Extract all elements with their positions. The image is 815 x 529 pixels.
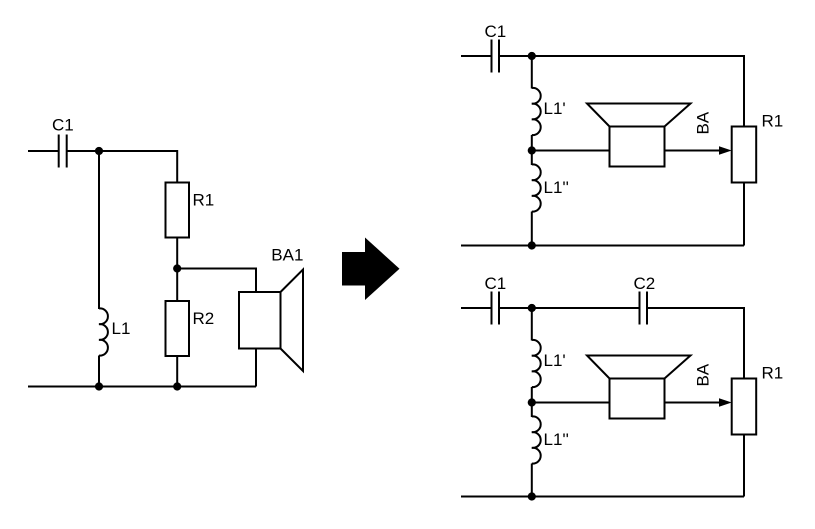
wire junction to speaker BA1 top	[177, 269, 256, 293]
wiper arrowhead (bottom-right)	[719, 398, 732, 407]
wire junction down to L1	[98, 151, 100, 309]
transform arrow	[342, 238, 400, 301]
wire junction to L1' (top-right)	[531, 56, 533, 89]
capacitor C1 (left circuit)	[59, 135, 67, 168]
wire junction to L1' (bottom-right)	[531, 308, 533, 341]
wiper arrowhead (top-right)	[719, 146, 732, 155]
node top junction (bottom-right)	[528, 304, 536, 312]
wire mid junction to speaker (top-right)	[532, 150, 610, 152]
svg-text:R1: R1	[762, 112, 784, 131]
wire mid junction to L1'' (top-right)	[531, 151, 533, 166]
inductor L1' (top-right)	[532, 88, 541, 135]
inductor L1'' (bottom-right)	[532, 416, 541, 463]
speaker BA (top-right)	[587, 104, 691, 167]
wire junction to R2	[176, 269, 178, 302]
wire mid junction to speaker (bottom-right)	[532, 402, 610, 404]
speaker BA1	[239, 270, 303, 372]
svg-text:L1'': L1''	[544, 430, 569, 449]
svg-text:C1: C1	[52, 116, 74, 135]
node A (junction dot top of L1)	[95, 147, 103, 155]
svg-text:BA: BA	[694, 111, 713, 134]
wire C1 to R1 corner (top wire)	[67, 151, 178, 183]
svg-text:L1: L1	[112, 319, 131, 338]
wire C2 to R1 corner (bottom-right)	[647, 308, 744, 379]
svg-text:L1': L1'	[544, 99, 566, 118]
node C (junction dot between R1 and R2)	[173, 264, 181, 272]
node mid junction (top-right)	[528, 146, 536, 154]
svg-text:R1: R1	[762, 364, 784, 383]
svg-text:C1: C1	[485, 274, 507, 293]
wire L1'' to bottom rail (top-right)	[531, 212, 533, 246]
potentiometer R1 (bottom-right)	[732, 379, 757, 435]
wire L1' to mid junction (bottom-right)	[531, 387, 533, 403]
wire R1 to junction	[176, 238, 178, 269]
inductor L1' (bottom-right)	[532, 340, 541, 387]
wire mid junction to L1'' (bottom-right)	[531, 403, 533, 418]
svg-text:BA1: BA1	[271, 246, 303, 265]
node top junction (top-right)	[528, 52, 536, 60]
inductor L1'' (top-right)	[532, 164, 541, 211]
capacitor C1 (top-right circuit)	[492, 40, 500, 73]
node B (junction dot L1 bottom)	[95, 382, 103, 390]
wire left input (left circuit top lead)	[28, 150, 58, 152]
wire C1 to C2	[499, 307, 640, 309]
node bottom junction (bottom-right)	[528, 492, 536, 500]
capacitor C2	[640, 292, 648, 325]
svg-text:R2: R2	[193, 309, 215, 328]
capacitor C1 (bottom-right circuit)	[492, 292, 500, 325]
speaker BA (bottom-right)	[587, 356, 691, 419]
node bottom junction (top-right)	[528, 241, 536, 249]
svg-text:C2: C2	[634, 274, 656, 293]
wire L1' to mid junction (top-right)	[531, 135, 533, 151]
wire bottom rail (top-right)	[461, 245, 744, 247]
wire left input (bottom-right circuit top lead)	[461, 307, 491, 309]
wire speaker BA1 bottom to bottom rail	[255, 349, 257, 387]
resistor R2	[166, 301, 190, 356]
potentiometer R1 (top-right)	[732, 127, 757, 183]
wire R1 bottom to rail (top-right)	[743, 183, 745, 246]
wire speaker to R1 wiper (bottom-right)	[665, 402, 722, 404]
wire R1 bottom to rail (bottom-right)	[743, 435, 745, 497]
wire left input (top-right circuit top lead)	[461, 55, 491, 57]
node D (junction dot R2 bottom)	[173, 382, 181, 390]
svg-text:BA: BA	[694, 363, 713, 386]
svg-text:L1': L1'	[544, 351, 566, 370]
node mid junction (bottom-right)	[528, 398, 536, 406]
inductor L1	[99, 308, 108, 355]
wire bottom rail (left circuit)	[28, 386, 256, 388]
resistor R1 (left circuit)	[166, 183, 190, 238]
wire L1'' to bottom rail (bottom-right)	[531, 464, 533, 497]
svg-text:R1: R1	[193, 191, 215, 210]
wire L1 to bottom rail	[98, 356, 100, 387]
wire speaker to R1 wiper (top-right)	[665, 150, 722, 152]
svg-text:C1: C1	[485, 22, 507, 41]
wire C1 to R1 corner (top-right)	[499, 56, 744, 127]
wire bottom rail (bottom-right)	[461, 496, 744, 498]
svg-text:L1'': L1''	[544, 178, 569, 197]
wire R2 to bottom rail	[176, 356, 178, 387]
